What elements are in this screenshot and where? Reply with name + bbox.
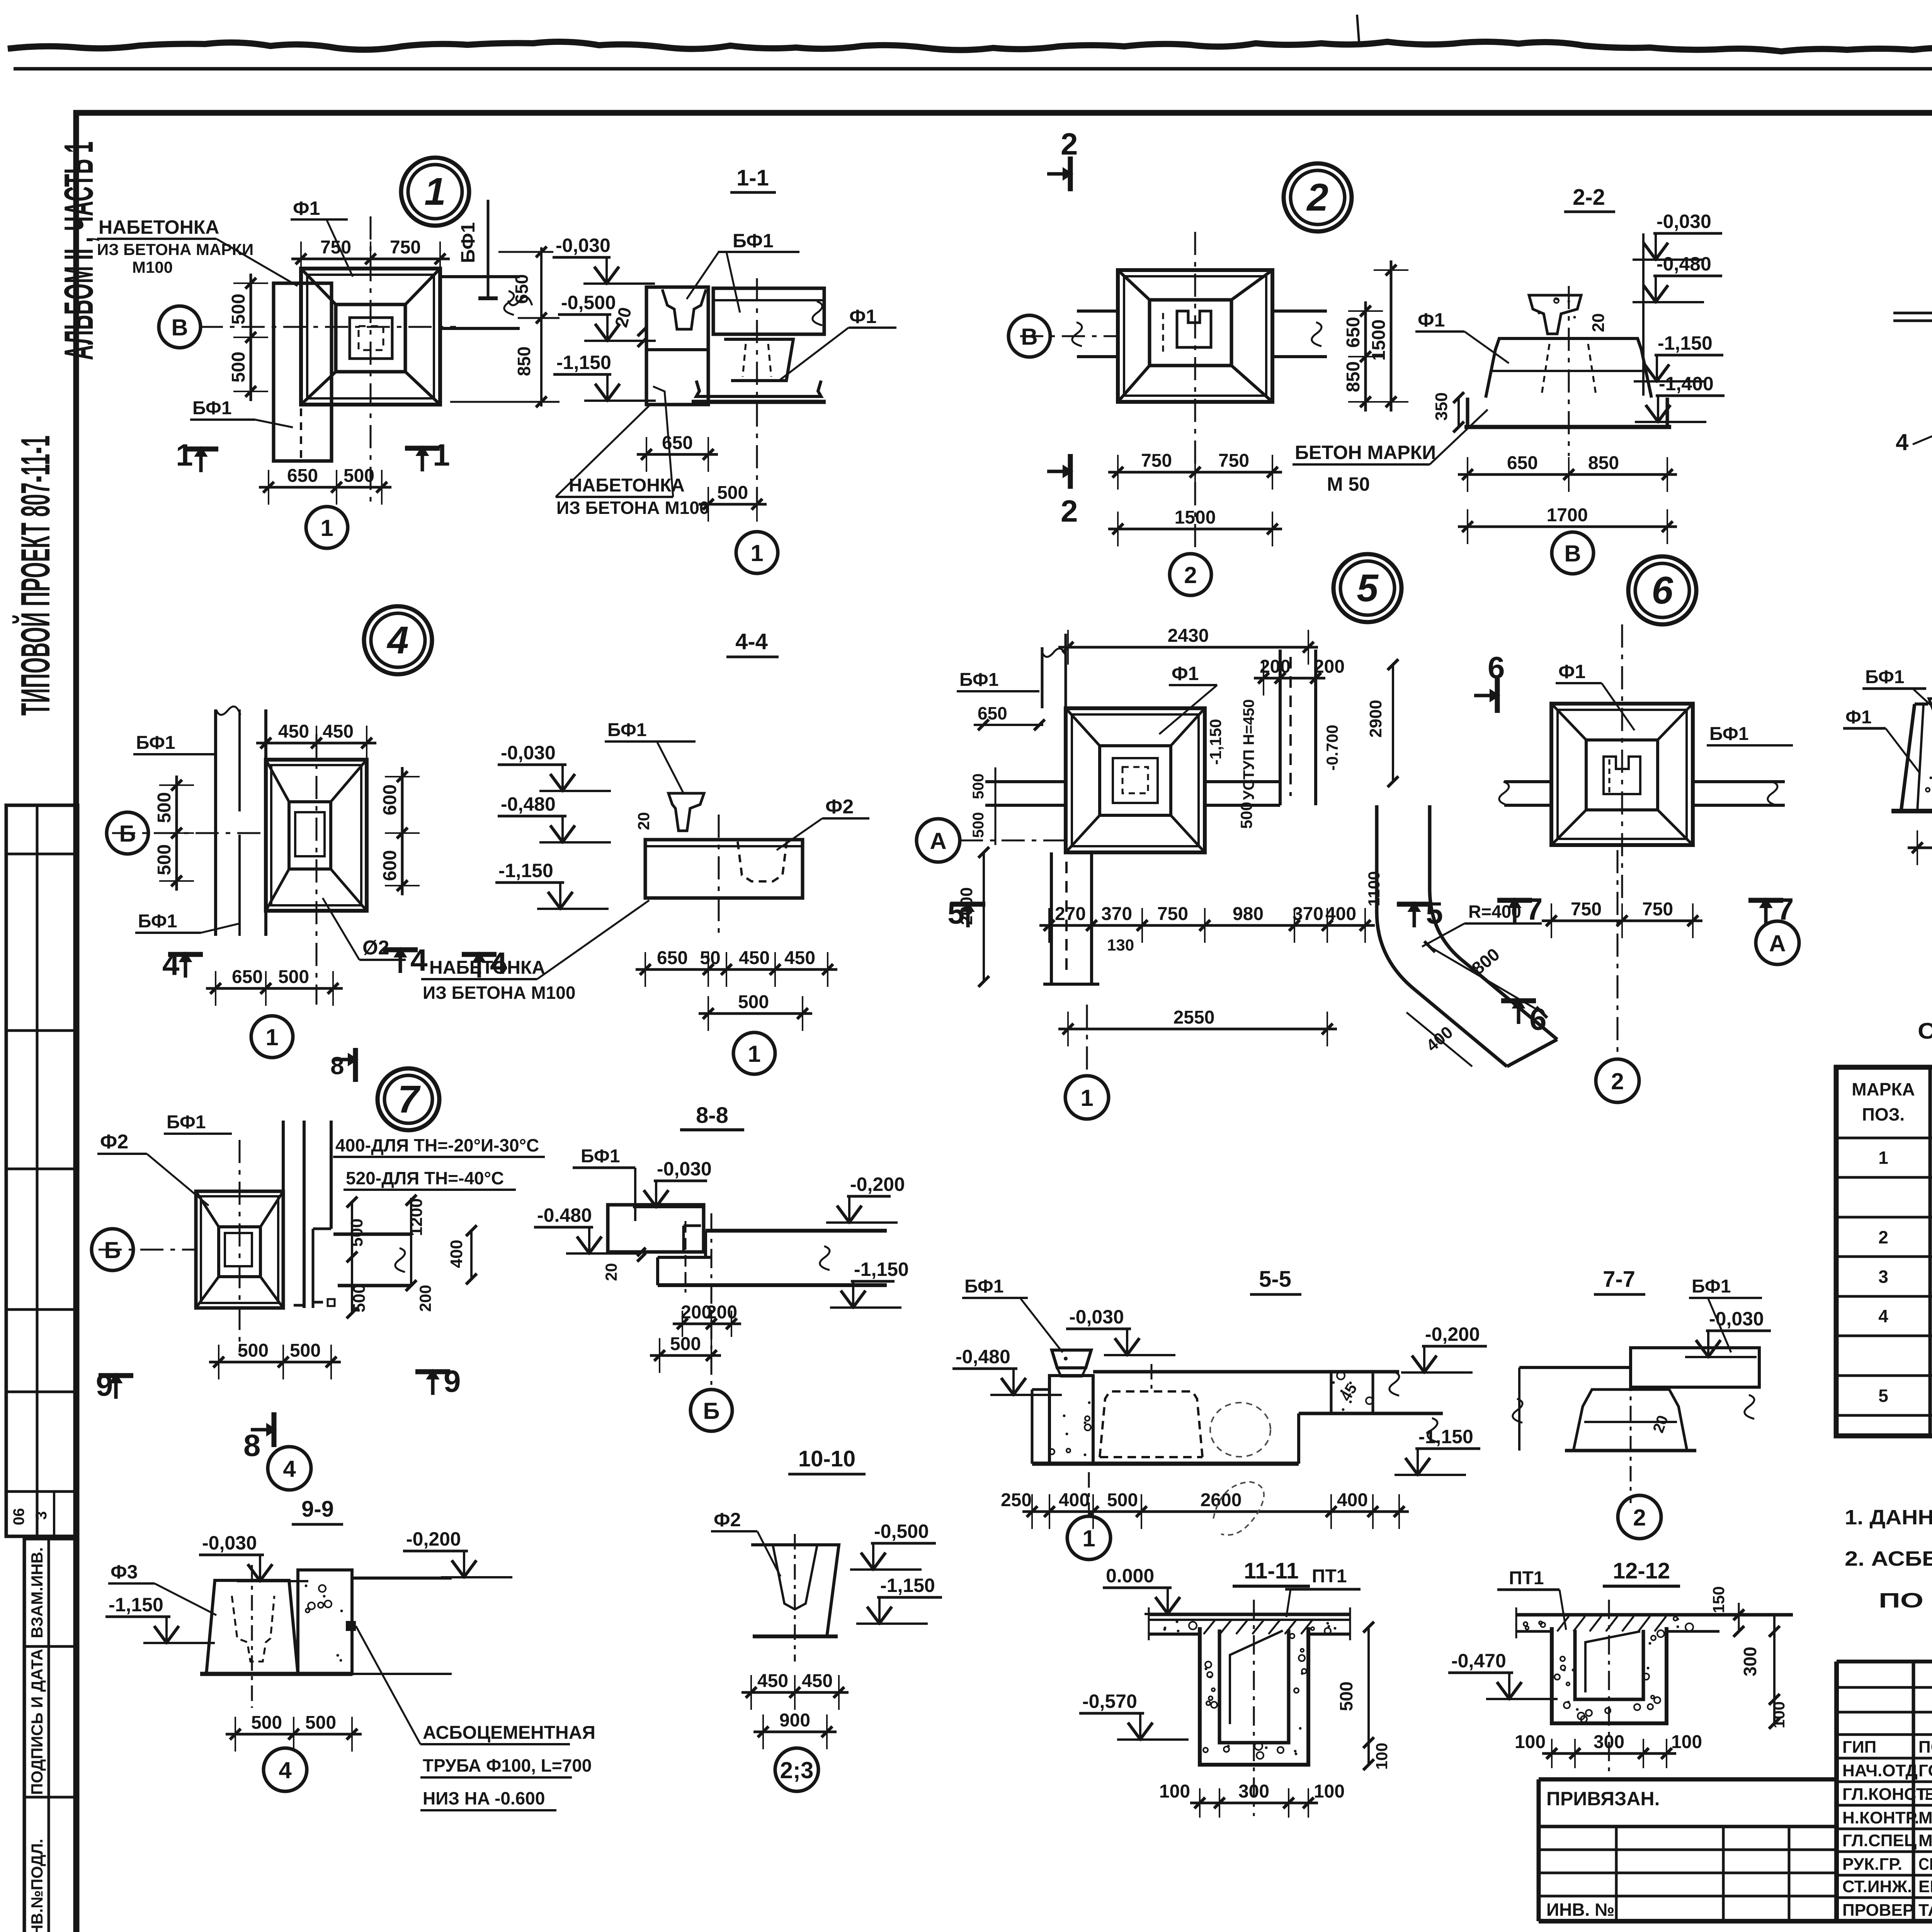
svg-text:450: 450 xyxy=(323,721,354,742)
svg-text:1100: 1100 xyxy=(1365,871,1383,906)
svg-text:ПОЗ.: ПОЗ. xyxy=(1862,1104,1905,1124)
svg-text:2: 2 xyxy=(1611,1068,1624,1094)
svg-text:Ф2: Ф2 xyxy=(714,1509,741,1531)
svg-text:500: 500 xyxy=(251,1713,282,1733)
svg-text:650: 650 xyxy=(978,703,1007,723)
svg-text:А: А xyxy=(1769,930,1786,956)
svg-text:450: 450 xyxy=(278,721,309,742)
svg-text:10-10: 10-10 xyxy=(798,1446,855,1471)
svg-text:ТИПОВОЙ ПРОЕКТ 807-11-1: ТИПОВОЙ ПРОЕКТ 807-11-1 xyxy=(12,435,58,716)
svg-text:БФ1: БФ1 xyxy=(607,720,647,740)
svg-text:СКОБЛИКОВ: СКОБЛИКОВ xyxy=(1918,1855,1932,1874)
svg-text:ПТ1: ПТ1 xyxy=(1509,1568,1544,1588)
svg-text:ИЗ БЕТОНА М100: ИЗ БЕТОНА М100 xyxy=(423,983,575,1003)
svg-text:Ф1: Ф1 xyxy=(1845,707,1872,728)
svg-text:4: 4 xyxy=(490,946,507,980)
svg-text:400: 400 xyxy=(447,1240,466,1268)
svg-text:130: 130 xyxy=(1107,936,1134,954)
svg-text:-0,200: -0,200 xyxy=(1425,1323,1480,1345)
svg-text:450: 450 xyxy=(757,1671,788,1691)
svg-text:500: 500 xyxy=(1237,802,1255,829)
svg-text:200: 200 xyxy=(1260,656,1291,677)
svg-text:4: 4 xyxy=(1896,429,1909,455)
svg-text:6: 6 xyxy=(1529,1002,1547,1036)
svg-text:УСТУП H=450: УСТУП H=450 xyxy=(1240,699,1257,800)
svg-text:НАЧ.ОТД: НАЧ.ОТД xyxy=(1842,1761,1918,1780)
svg-text:БФ1: БФ1 xyxy=(138,911,177,932)
svg-text:-1,150: -1,150 xyxy=(498,860,553,881)
svg-text:В: В xyxy=(1021,324,1037,350)
svg-text:Б: Б xyxy=(703,1398,719,1424)
svg-text:БФ1: БФ1 xyxy=(1692,1276,1731,1297)
svg-text:500: 500 xyxy=(1107,1490,1138,1510)
svg-text:ИНВ. №: ИНВ. № xyxy=(1546,1900,1614,1920)
svg-text:650: 650 xyxy=(1507,453,1538,473)
svg-text:400-ДЛЯ TН=-20°И-30°С: 400-ДЛЯ TН=-20°И-30°С xyxy=(335,1135,539,1155)
svg-text:1200: 1200 xyxy=(407,1198,426,1236)
svg-text:370: 370 xyxy=(1101,904,1132,924)
svg-text:2: 2 xyxy=(1061,494,1078,528)
svg-text:650: 650 xyxy=(232,967,263,987)
svg-text:-0,480: -0,480 xyxy=(501,793,556,815)
svg-text:450: 450 xyxy=(739,948,770,968)
svg-text:0.000: 0.000 xyxy=(1106,1565,1154,1587)
svg-text:500: 500 xyxy=(970,812,987,838)
svg-text:5: 5 xyxy=(1878,1386,1888,1406)
svg-text:9-9: 9-9 xyxy=(301,1497,334,1522)
svg-text:Ф2: Ф2 xyxy=(825,796,854,818)
svg-text:500: 500 xyxy=(278,967,309,987)
svg-text:-0,480: -0,480 xyxy=(1656,253,1711,275)
svg-text:2550: 2550 xyxy=(1173,1007,1215,1028)
svg-text:МАРКА: МАРКА xyxy=(1852,1079,1915,1099)
svg-text:1: 1 xyxy=(1878,1148,1888,1168)
svg-text:20: 20 xyxy=(602,1263,620,1281)
svg-text:1. ДАННЫЙ ЛИСТ СМОТРИ СОВМЕСТ: 1. ДАННЫЙ ЛИСТ СМОТРИ СОВМЕСТНО С ЛИСТОМ… xyxy=(1845,1505,1932,1529)
svg-text:300: 300 xyxy=(1740,1647,1760,1677)
svg-text:850: 850 xyxy=(514,347,534,376)
svg-text:НАБЕТОНКА: НАБЕТОНКА xyxy=(569,475,685,496)
svg-text:R=400: R=400 xyxy=(1468,901,1521,922)
svg-text:-0,500: -0,500 xyxy=(874,1520,929,1542)
svg-text:ГИП: ГИП xyxy=(1842,1738,1876,1757)
svg-text:БФ1: БФ1 xyxy=(136,733,175,753)
svg-text:-0,030: -0,030 xyxy=(1656,211,1711,232)
svg-text:-0,470: -0,470 xyxy=(1451,1650,1506,1672)
svg-text:НАБЕТОНКА: НАБЕТОНКА xyxy=(429,957,545,978)
svg-text:ВЗАМ.ИНВ.: ВЗАМ.ИНВ. xyxy=(28,1547,46,1638)
svg-text:-0,570: -0,570 xyxy=(1082,1690,1137,1712)
svg-text:850: 850 xyxy=(1588,453,1619,473)
svg-text:ПРОВЕР.: ПРОВЕР. xyxy=(1842,1901,1916,1920)
svg-text:РУК.ГР.: РУК.ГР. xyxy=(1842,1855,1902,1874)
svg-text:ИЗ БЕТОНА МАРКИ: ИЗ БЕТОНА МАРКИ xyxy=(97,240,253,259)
svg-text:750: 750 xyxy=(320,237,351,258)
svg-text:500: 500 xyxy=(738,992,769,1012)
svg-text:СТ.ИНЖ.: СТ.ИНЖ. xyxy=(1842,1877,1912,1896)
svg-text:1: 1 xyxy=(176,438,193,472)
svg-text:400: 400 xyxy=(1059,1490,1090,1510)
svg-text:980: 980 xyxy=(1233,904,1264,924)
svg-text:2: 2 xyxy=(1878,1227,1888,1247)
svg-text:500: 500 xyxy=(305,1713,336,1733)
svg-text:11-11: 11-11 xyxy=(1244,1558,1299,1583)
svg-text:Б: Б xyxy=(104,1237,121,1263)
svg-text:450: 450 xyxy=(784,948,815,968)
svg-text:2: 2 xyxy=(1184,562,1197,588)
svg-text:850: 850 xyxy=(1343,361,1364,392)
svg-text:НИЗ НА: НИЗ НА xyxy=(423,1788,490,1808)
svg-text:-1,150: -1,150 xyxy=(1418,1426,1473,1447)
svg-text:2: 2 xyxy=(1306,176,1328,219)
svg-text:600: 600 xyxy=(380,850,400,881)
svg-text:БЕТОН МАРКИ: БЕТОН МАРКИ xyxy=(1295,442,1436,463)
svg-text:1: 1 xyxy=(265,1024,278,1050)
svg-text:4-4: 4-4 xyxy=(735,629,768,654)
svg-text:1: 1 xyxy=(748,1041,760,1067)
svg-text:5: 5 xyxy=(947,896,965,930)
svg-text:7-7: 7-7 xyxy=(1603,1267,1635,1292)
svg-text:750: 750 xyxy=(1571,899,1602,920)
svg-text:1: 1 xyxy=(750,540,763,566)
svg-text:370: 370 xyxy=(1293,904,1323,924)
svg-text:400: 400 xyxy=(1325,904,1356,924)
svg-text:-1,400: -1,400 xyxy=(1659,373,1714,395)
svg-text:БФ1: БФ1 xyxy=(167,1112,206,1133)
svg-text:06: 06 xyxy=(10,1508,27,1526)
svg-text:Ф3: Ф3 xyxy=(111,1561,138,1583)
svg-text:ГЛ.СПЕЦ: ГЛ.СПЕЦ xyxy=(1842,1831,1917,1850)
svg-text:ПТ1: ПТ1 xyxy=(1312,1566,1347,1587)
svg-text:3: 3 xyxy=(1878,1267,1888,1287)
svg-text:АЛЬБОМ II , ЧАСТЬ 1: АЛЬБОМ II , ЧАСТЬ 1 xyxy=(56,141,102,360)
svg-text:БФ1: БФ1 xyxy=(1709,724,1749,744)
svg-text:АСБОЦЕМЕНТНАЯ: АСБОЦЕМЕНТНАЯ xyxy=(423,1723,595,1743)
svg-text:50: 50 xyxy=(700,948,720,968)
svg-text:1700: 1700 xyxy=(1547,505,1588,526)
svg-text:Н.КОНТР.: Н.КОНТР. xyxy=(1842,1808,1919,1827)
svg-text:12-12: 12-12 xyxy=(1613,1558,1670,1583)
svg-text:500: 500 xyxy=(154,844,175,875)
svg-text:ЕРМАКОВА: ЕРМАКОВА xyxy=(1918,1877,1932,1896)
svg-text:750: 750 xyxy=(390,237,421,258)
svg-text:7: 7 xyxy=(398,1078,421,1121)
svg-text:4: 4 xyxy=(283,1456,296,1482)
svg-text:Ф1: Ф1 xyxy=(1172,663,1199,684)
svg-text:500: 500 xyxy=(344,466,374,486)
svg-text:Ф1: Ф1 xyxy=(1558,661,1585,682)
svg-text:М 50: М 50 xyxy=(1327,473,1370,495)
svg-text:500: 500 xyxy=(228,294,249,325)
svg-text:4: 4 xyxy=(279,1757,292,1783)
svg-text:-0,030: -0,030 xyxy=(1069,1306,1124,1328)
svg-text:750: 750 xyxy=(1642,899,1673,920)
svg-text:650: 650 xyxy=(657,948,688,968)
svg-text:4: 4 xyxy=(386,619,409,662)
svg-text:8: 8 xyxy=(330,1052,344,1080)
svg-text:-1,150: -1,150 xyxy=(109,1594,163,1616)
svg-text:-0,500: -0,500 xyxy=(561,292,616,313)
svg-text:250: 250 xyxy=(1001,1490,1032,1510)
svg-text:400: 400 xyxy=(1337,1490,1368,1510)
svg-text:500: 500 xyxy=(717,483,748,503)
svg-text:БФ1: БФ1 xyxy=(733,230,774,252)
svg-text:1: 1 xyxy=(433,438,450,472)
svg-text:-0,200: -0,200 xyxy=(850,1173,905,1195)
svg-text:МАРКОВ: МАРКОВ xyxy=(1918,1831,1932,1850)
svg-text:9: 9 xyxy=(96,1368,113,1402)
svg-text:2: 2 xyxy=(1061,127,1078,161)
svg-text:БФ1: БФ1 xyxy=(192,398,232,418)
svg-text:200: 200 xyxy=(706,1302,737,1323)
svg-text:БФ1: БФ1 xyxy=(964,1276,1004,1297)
svg-text:ПРИВЯЗАН.: ПРИВЯЗАН. xyxy=(1546,1788,1660,1810)
svg-text:100: 100 xyxy=(1515,1732,1546,1752)
svg-text:500: 500 xyxy=(228,352,249,383)
svg-text:1-1: 1-1 xyxy=(736,165,769,190)
svg-text:В: В xyxy=(1564,541,1581,566)
svg-text:1: 1 xyxy=(320,515,333,541)
svg-text:520-ДЛЯ TН=-40°С: 520-ДЛЯ TН=-40°С xyxy=(346,1168,504,1188)
svg-text:100: 100 xyxy=(1671,1732,1702,1752)
svg-text:450: 450 xyxy=(802,1671,833,1691)
svg-text:-1,150: -1,150 xyxy=(1206,719,1225,765)
svg-text:-1,150: -1,150 xyxy=(880,1575,935,1596)
svg-text:4: 4 xyxy=(162,947,180,981)
svg-text:6: 6 xyxy=(1488,650,1505,685)
svg-text:9: 9 xyxy=(444,1364,461,1398)
svg-text:-1,150: -1,150 xyxy=(1658,332,1713,354)
svg-text:3: 3 xyxy=(33,1511,50,1520)
svg-text:1: 1 xyxy=(1080,1085,1093,1111)
svg-text:Ф1: Ф1 xyxy=(293,197,320,219)
svg-text:4: 4 xyxy=(1878,1306,1888,1326)
svg-text:М100: М100 xyxy=(132,258,173,276)
svg-text:200: 200 xyxy=(416,1285,434,1312)
svg-text:270: 270 xyxy=(1055,904,1086,924)
svg-text:-0.600: -0.600 xyxy=(495,1788,545,1808)
svg-text:200: 200 xyxy=(1314,656,1345,677)
svg-text:ИЗ БЕТОНА М100: ИЗ БЕТОНА М100 xyxy=(556,498,709,518)
svg-text:-1,150: -1,150 xyxy=(854,1259,909,1280)
svg-text:-0,030: -0,030 xyxy=(1709,1308,1764,1330)
svg-text:2;3: 2;3 xyxy=(780,1757,814,1783)
svg-text:ИНВ.№ПОДЛ.: ИНВ.№ПОДЛ. xyxy=(28,1839,46,1932)
svg-text:8-8: 8-8 xyxy=(696,1103,728,1128)
svg-text:-0,030: -0,030 xyxy=(657,1158,712,1180)
svg-text:Ф1: Ф1 xyxy=(1418,309,1445,331)
svg-text:БФ1: БФ1 xyxy=(581,1146,620,1167)
svg-text:-0,030: -0,030 xyxy=(556,235,611,256)
svg-text:1500: 1500 xyxy=(1369,320,1389,361)
svg-text:100: 100 xyxy=(1372,1743,1391,1770)
svg-text:БФ1: БФ1 xyxy=(959,670,999,690)
svg-text:-0,030: -0,030 xyxy=(501,742,556,764)
svg-text:2-2: 2-2 xyxy=(1573,185,1605,210)
svg-text:5-5: 5-5 xyxy=(1259,1267,1291,1292)
svg-text:2600: 2600 xyxy=(1201,1490,1242,1510)
svg-text:1: 1 xyxy=(424,170,446,213)
svg-text:500: 500 xyxy=(154,792,175,823)
svg-text:-0,200: -0,200 xyxy=(406,1528,461,1550)
svg-text:Б: Б xyxy=(119,821,136,847)
svg-text:20: 20 xyxy=(634,812,653,830)
svg-text:2430: 2430 xyxy=(1168,626,1209,646)
svg-text:100: 100 xyxy=(1314,1781,1345,1802)
svg-text:-1,150: -1,150 xyxy=(556,352,611,373)
svg-text:650: 650 xyxy=(1343,317,1364,348)
svg-text:500: 500 xyxy=(970,774,987,799)
svg-text:8: 8 xyxy=(243,1428,261,1463)
svg-text:4: 4 xyxy=(410,943,428,977)
svg-text:500: 500 xyxy=(1336,1682,1356,1711)
svg-text:2: 2 xyxy=(1633,1505,1646,1531)
svg-text:-0,480: -0,480 xyxy=(956,1346,1010,1367)
svg-text:-0.480: -0.480 xyxy=(537,1204,592,1226)
svg-text:20: 20 xyxy=(1589,313,1608,332)
svg-text:ПО ГОСТ 1839-72.*: ПО ГОСТ 1839-72.* xyxy=(1879,1589,1932,1612)
svg-text:НАБЕТОНКА: НАБЕТОНКА xyxy=(99,216,219,238)
svg-text:ТАИРОВА: ТАИРОВА xyxy=(1918,1901,1932,1920)
svg-text:6: 6 xyxy=(1651,569,1673,612)
svg-text:900: 900 xyxy=(779,1710,810,1731)
svg-text:ГЛ.КОНСТ.: ГЛ.КОНСТ. xyxy=(1842,1785,1929,1804)
svg-text:МАРКОВ: МАРКОВ xyxy=(1918,1808,1932,1827)
svg-text:7: 7 xyxy=(1526,892,1543,926)
svg-text:750: 750 xyxy=(1141,451,1172,471)
svg-text:А: А xyxy=(930,828,946,854)
svg-text:350: 350 xyxy=(1432,392,1451,420)
svg-text:-0.700: -0.700 xyxy=(1323,724,1341,770)
svg-text:650: 650 xyxy=(662,433,693,453)
svg-text:В: В xyxy=(171,315,188,340)
svg-text:650: 650 xyxy=(287,466,318,486)
svg-text:ТРУБА Ф100, L=700: ТРУБА Ф100, L=700 xyxy=(423,1755,592,1776)
svg-text:ТЕПЛЯКОВСКИЙ: ТЕПЛЯКОВСКИЙ xyxy=(1918,1784,1932,1804)
svg-text:500: 500 xyxy=(670,1334,701,1354)
svg-text:500: 500 xyxy=(290,1340,321,1361)
svg-text:Ф1: Ф1 xyxy=(849,306,876,327)
svg-text:ПОДПИСЬ И ДАТА: ПОДПИСЬ И ДАТА xyxy=(28,1649,46,1795)
svg-text:500: 500 xyxy=(238,1340,269,1361)
svg-text:150: 150 xyxy=(1709,1586,1728,1613)
svg-text:2900: 2900 xyxy=(1366,700,1385,738)
svg-text:БФ1: БФ1 xyxy=(1865,667,1905,687)
svg-text:1: 1 xyxy=(1082,1526,1095,1551)
svg-text:600: 600 xyxy=(380,784,400,815)
svg-text:-0,030: -0,030 xyxy=(202,1532,257,1554)
svg-text:2. АСБЕСТОЦЕМЕНТНУЮ ТРУБУ Ø10: 2. АСБЕСТОЦЕМЕНТНУЮ ТРУБУ Ø100; L=700 ПР… xyxy=(1845,1547,1932,1570)
svg-text:100: 100 xyxy=(1159,1781,1190,1802)
svg-text:5: 5 xyxy=(1357,566,1379,610)
svg-text:СПЕЦИФИКАЦИЯ СТАЛИ НА ПРИЯМ: СПЕЦИФИКАЦИЯ СТАЛИ НА ПРИЯМОК xyxy=(1918,1019,1932,1044)
svg-text:ГОРБУНОВ: ГОРБУНОВ xyxy=(1918,1761,1932,1780)
svg-text:БФ1: БФ1 xyxy=(457,222,479,263)
svg-text:1500: 1500 xyxy=(1175,507,1216,528)
svg-text:Ф2: Ф2 xyxy=(100,1131,128,1153)
svg-text:750: 750 xyxy=(1218,451,1249,471)
svg-text:750: 750 xyxy=(1157,904,1188,924)
svg-text:ПОПОВ: ПОПОВ xyxy=(1918,1738,1932,1757)
